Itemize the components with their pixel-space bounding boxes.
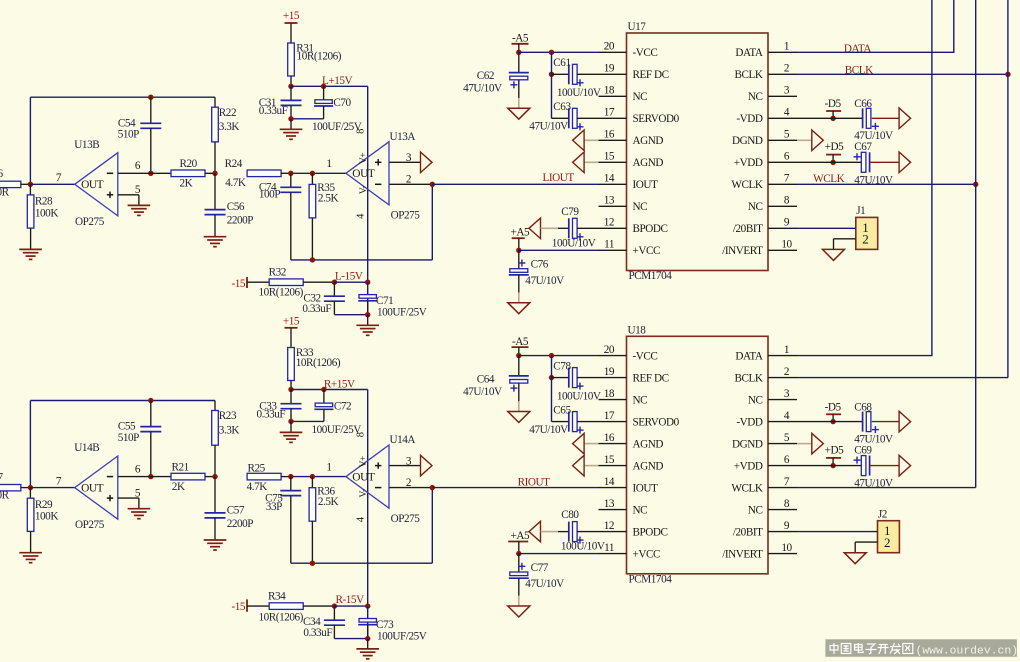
pin 19 (REF DC) of U17 (599, 73, 627, 75)
svg-text:3.3K: 3.3K (219, 425, 240, 437)
svg-text:BPODC: BPODC (633, 526, 668, 538)
junction V- rail bottom (365, 603, 370, 608)
junction -A5 node (516, 50, 521, 55)
pin 1 (DATA) of U17 (768, 51, 797, 53)
svg-text:16: 16 (604, 432, 615, 444)
resistor R34 (269, 603, 303, 610)
pin 1 (DATA) of U18 (768, 355, 797, 357)
svg-text:C68: C68 (854, 401, 872, 413)
label C77 plus (518, 565, 525, 567)
power bar +D5 (826, 457, 841, 459)
svg-text:15: 15 (604, 151, 615, 163)
wire node to U13A pin 1 (291, 172, 346, 174)
svg-text:+VDD: +VDD (734, 460, 763, 472)
AGND arrow U17 pin 15 stub (584, 161, 598, 163)
junction C55 tap (148, 398, 153, 403)
svg-text:C76: C76 (531, 259, 549, 271)
junction C75 tap (288, 474, 293, 479)
capacitor C33 (281, 403, 302, 405)
wire V- rail to ground node bottom (367, 606, 369, 639)
wire feedback top net 1 (30, 96, 215, 98)
op-amp U14B (75, 456, 118, 519)
resistor R31 (288, 43, 295, 76)
svg-text:19: 19 (604, 366, 615, 378)
svg-text:R-15V: R-15V (336, 594, 365, 606)
power bar -15 (bottom) (246, 599, 248, 611)
wire feedback left vertical 1 (29, 97, 31, 184)
svg-text:-D5: -D5 (825, 401, 842, 413)
svg-text:OP275: OP275 (75, 519, 105, 531)
wire WCLK U18 horizontal (797, 487, 976, 489)
wire C34 bottom (334, 638, 367, 640)
svg-text:0R: 0R (0, 186, 10, 198)
svg-text:2: 2 (784, 366, 789, 378)
svg-text:47U/10V: 47U/10V (525, 578, 564, 590)
AGND arrow at U18 pin 16 (573, 433, 585, 454)
pin 5 (DGND) of U18 (768, 443, 797, 445)
junction C34 tap (332, 603, 337, 608)
pin 14 (IOUT) of U18 (599, 487, 627, 489)
svg-text:7: 7 (784, 173, 790, 185)
svg-text:1: 1 (326, 158, 331, 170)
svg-text:WCLK: WCLK (731, 179, 763, 191)
wire +A5 to U17 pin 11 (519, 249, 599, 251)
capacitor C71 (359, 295, 376, 299)
svg-text:12: 12 (604, 520, 614, 532)
svg-text:C71: C71 (376, 295, 393, 307)
power arrow at C80 (529, 521, 541, 542)
capacitor C66 (862, 108, 864, 128)
label C61 plus (577, 82, 584, 84)
svg-text:-VCC: -VCC (633, 47, 658, 59)
junction R35 tap (310, 171, 315, 176)
ground below R28 (19, 248, 42, 250)
pin 6 (+VDD) of U17 (768, 161, 797, 163)
pin 3 (NC) of U18 (768, 399, 797, 401)
pin 7 (WCLK) of U17 (768, 183, 797, 185)
svg-text:17: 17 (604, 410, 615, 422)
svg-text:C61: C61 (553, 57, 570, 69)
svg-text:14: 14 (604, 173, 615, 185)
AGND arrow U18 pin 16 stub (584, 443, 598, 445)
svg-text:+A5: +A5 (510, 227, 529, 239)
lead C69 to arrow (870, 465, 899, 467)
power bar +15 (bottom) (285, 327, 298, 329)
svg-text:+VDD: +VDD (734, 157, 763, 169)
svg-text:R28: R28 (35, 196, 53, 208)
capacitor C74 (280, 186, 301, 188)
svg-text:-VDD: -VDD (736, 416, 763, 428)
pin 18 (NC) of U18 (599, 399, 627, 401)
ground triangle below J2 (844, 553, 866, 564)
junction +A5 node (516, 248, 521, 253)
svg-text:6: 6 (784, 454, 790, 466)
pin 16 (AGND) of U17 (599, 139, 627, 141)
pin 12 (BPODC) of U17 (599, 227, 627, 229)
junction C54 bottom node (148, 171, 153, 176)
wire R+15V rail (291, 389, 368, 391)
wire pin 4 to C68 (797, 421, 863, 423)
svg-text:0.33uF: 0.33uF (302, 303, 331, 315)
svg-text:R24: R24 (225, 158, 243, 170)
power bar -D5 (826, 110, 841, 112)
junction V- rail (365, 280, 370, 285)
wire C33/C72 bottom (291, 420, 324, 422)
junction C33 bottom node (288, 419, 293, 424)
ground below C71 (356, 324, 379, 326)
svg-text:AGND: AGND (633, 460, 664, 472)
junction ground node L-15V (365, 312, 370, 317)
svg-text:BCLK: BCLK (734, 69, 762, 81)
resistor R32 (269, 279, 303, 286)
svg-text:V-: V- (359, 186, 369, 195)
svg-text:100U/10V: 100U/10V (561, 541, 605, 553)
wire U14A pin 3 (389, 465, 420, 467)
svg-text:2.5K: 2.5K (318, 496, 339, 508)
svg-text:C65: C65 (553, 405, 571, 417)
wire -A5 to U17 pin 20 (519, 51, 599, 53)
svg-text:12: 12 (604, 217, 614, 229)
wire WCLK U17 to bus (797, 183, 976, 185)
svg-text:2200P: 2200P (227, 518, 254, 530)
svg-text:R+15V: R+15V (324, 378, 355, 390)
svg-text:R23: R23 (219, 410, 237, 422)
AGND arrow U18 pin 15 stub (584, 465, 598, 467)
svg-text:J2: J2 (878, 509, 887, 521)
svg-text:REF DC: REF DC (633, 69, 669, 81)
resistor R24 (247, 170, 281, 177)
IC U18 PCM1704 body (627, 336, 769, 574)
connector J1 body (856, 217, 878, 249)
DGND arrow at U18 pin 5 (812, 433, 824, 454)
svg-text:C67: C67 (854, 141, 872, 153)
svg-text:13: 13 (604, 195, 615, 207)
ground below C56 (204, 236, 227, 238)
svg-text:20: 20 (604, 41, 615, 53)
wire U14B pin 5 (118, 497, 139, 499)
svg-text:BCLK: BCLK (734, 372, 762, 384)
ground triangle below C62 (508, 108, 530, 119)
junction C61 tap (549, 72, 554, 77)
svg-text:47U/10V: 47U/10V (463, 386, 502, 398)
resistor R22 (212, 107, 219, 142)
svg-text:2.5K: 2.5K (318, 193, 339, 205)
svg-text:13: 13 (604, 498, 615, 510)
power bar -15 (top) (246, 277, 248, 288)
power arrow at C68 (899, 411, 911, 432)
wire U14A pin 2 (389, 487, 432, 489)
wire pin 9 to J1 pin 1 (797, 227, 856, 229)
capacitor C55 (140, 426, 161, 428)
svg-text:3: 3 (406, 152, 412, 164)
wire feedback top net 2 (30, 400, 215, 402)
power bar +A5 (508, 541, 528, 543)
label C66 plus (872, 125, 879, 127)
pin 15 (AGND) of U17 (599, 161, 627, 163)
svg-text:(www.ourdev.cn): (www.ourdev.cn) (916, 646, 1019, 658)
label C68 plus (872, 429, 879, 431)
svg-text:-15: -15 (232, 278, 246, 290)
wire C72 down (323, 409, 325, 421)
AGND arrow at U17 pin 16 (573, 130, 585, 151)
svg-text:18: 18 (604, 388, 615, 400)
svg-text:17: 17 (604, 107, 615, 119)
capacitor C76 (510, 269, 528, 273)
op-amp U14A (346, 445, 389, 508)
wire feedback rail 2 (291, 562, 433, 564)
wire U13B pin 6 to node (118, 172, 151, 174)
svg-text:C54: C54 (118, 117, 136, 129)
wire WCLK bus vertical (975, 0, 977, 488)
ground below R29 (19, 552, 42, 554)
svg-text:C55: C55 (118, 421, 136, 433)
pin 11 (+VCC) of U17 (599, 249, 627, 251)
svg-text:20: 20 (604, 344, 615, 356)
svg-text:V+: V+ (359, 153, 369, 164)
svg-text:V+: V+ (359, 456, 369, 467)
wire J2 pin 2 (855, 541, 877, 543)
ground below C31 (280, 128, 303, 130)
wire L-15V rail (334, 281, 367, 283)
pin 15 (AGND) of U18 (599, 465, 627, 467)
svg-text:-15: -15 (232, 601, 246, 613)
junction ground node R-15V (365, 636, 370, 641)
svg-text:-VCC: -VCC (633, 350, 658, 362)
pin 5 (DGND) of U17 (768, 139, 797, 141)
junction C55 bottom node (148, 474, 153, 479)
wire branch to C78/C65 (551, 356, 553, 422)
svg-text:0.33uF: 0.33uF (257, 408, 286, 420)
wire pin 9 to J2 pin 1 (797, 531, 878, 533)
svg-text:/20BIT: /20BIT (733, 526, 763, 538)
svg-text:10R(1206): 10R(1206) (297, 51, 342, 63)
svg-text:6: 6 (135, 160, 141, 172)
capacitor C72 (315, 403, 332, 407)
power bar +D5 (826, 154, 841, 156)
pin 13 (NC) of U17 (599, 205, 627, 207)
svg-text:0R: 0R (0, 490, 10, 502)
wire C31/C70 bottom (291, 118, 324, 120)
svg-text:10R(1206): 10R(1206) (296, 357, 341, 369)
resistor R33 (288, 348, 295, 381)
watermark CJK glyphs (830, 643, 838, 654)
wire op-amp U14B output (30, 487, 74, 489)
svg-text:10R(1206): 10R(1206) (259, 287, 304, 299)
svg-text:AGND: AGND (633, 157, 664, 169)
svg-text:U13B: U13B (74, 139, 99, 151)
junction +D5 node (830, 160, 835, 165)
svg-text:U14B: U14B (74, 442, 99, 454)
svg-text:100U/10V: 100U/10V (552, 237, 596, 249)
capacitor C80 (568, 522, 570, 542)
svg-text:7: 7 (56, 476, 62, 488)
capacitor C32 (324, 295, 345, 297)
pin 11 (+VCC) of U18 (599, 553, 627, 555)
svg-text:WCLK: WCLK (813, 173, 845, 185)
svg-text:2: 2 (884, 535, 890, 550)
capacitor C65 (568, 412, 570, 432)
svg-text:1: 1 (326, 462, 331, 474)
svg-text:4.7K: 4.7K (247, 481, 268, 493)
svg-text:5: 5 (784, 432, 790, 444)
pin 19 (REF DC) of U18 (599, 377, 627, 379)
svg-text:DGND: DGND (732, 135, 763, 147)
svg-text:4: 4 (784, 107, 790, 119)
capacitor C69 (861, 456, 866, 476)
AGND arrow U17 pin 16 stub (584, 139, 598, 141)
svg-text:C69: C69 (854, 444, 872, 456)
svg-text:+A5: +A5 (510, 530, 529, 542)
svg-text:4.7K: 4.7K (225, 177, 246, 189)
svg-text:100UF/25V: 100UF/25V (312, 121, 362, 133)
pin 10 (/INVERT) of U17 (768, 249, 797, 251)
wire L+15V rail (291, 85, 368, 87)
pin 17 (SERVOD0) of U18 (599, 421, 627, 423)
capacitor C63 (568, 108, 570, 128)
svg-text:2200P: 2200P (227, 215, 254, 227)
svg-text:47U/10V: 47U/10V (529, 121, 568, 133)
op-amp U13B input markers (107, 172, 113, 174)
resistor R27 (cut off at edge) (0, 485, 21, 491)
ground at U13B pin 5 (128, 204, 151, 206)
svg-text:3: 3 (784, 388, 790, 400)
junction -A5 node (516, 353, 521, 358)
junction R36 bottom (310, 561, 315, 566)
pin 18 (NC) of U17 (599, 95, 627, 97)
wire feedback left vertical 2 (29, 401, 31, 488)
capacitor C54 (140, 122, 161, 124)
ground triangle below J1 (823, 249, 845, 260)
label C67 plus (854, 156, 861, 158)
label C62 plus (510, 84, 517, 86)
svg-text:6: 6 (135, 463, 141, 475)
svg-text:/INVERT: /INVERT (722, 245, 763, 257)
svg-text:5: 5 (135, 184, 141, 196)
power bar -A5 (512, 346, 529, 348)
wire V+ line down through U14A (367, 390, 369, 607)
svg-text:15: 15 (604, 454, 615, 466)
lead C68 to arrow (872, 421, 899, 423)
stub arrow C80 (541, 531, 559, 533)
svg-text:11: 11 (604, 542, 614, 554)
svg-text:C63: C63 (553, 101, 571, 113)
stub to ground triangle C76 (518, 293, 520, 303)
wire -15 to R32 (247, 281, 269, 283)
svg-text:-D5: -D5 (825, 98, 842, 110)
ground below C57 (204, 539, 227, 541)
svg-text:U13A: U13A (390, 131, 416, 143)
svg-text:NC: NC (633, 91, 648, 103)
svg-text:100UF/25V: 100UF/25V (377, 631, 427, 643)
op-amp U13A (346, 142, 389, 205)
svg-text:14: 14 (604, 476, 615, 488)
junction C78 branch (549, 353, 554, 358)
resistor R26 (cut off at edge) (0, 181, 21, 187)
wire C70 down (323, 106, 325, 119)
svg-text:2K: 2K (172, 481, 185, 493)
svg-text:8: 8 (356, 432, 367, 437)
wire U14B pin 6 to node (118, 476, 151, 478)
svg-text:100K: 100K (35, 511, 58, 523)
DGND arrow at U17 pin 5 (812, 130, 824, 151)
junction R31/C31 node (288, 84, 293, 89)
junction R20/R22 node (212, 171, 217, 176)
wire +15 to R33 (290, 328, 292, 348)
junction U14A pin 2 node (430, 485, 435, 490)
wire -A5 to U18 pin 20 (519, 355, 599, 357)
capacitor C77 (510, 572, 528, 576)
svg-text:33P: 33P (266, 501, 282, 513)
svg-text:9: 9 (784, 520, 790, 532)
junction C74 tap (288, 171, 293, 176)
junction C54 tap (148, 95, 153, 100)
label C80 plus (577, 539, 584, 541)
label C69 plus (854, 459, 861, 461)
junction R36 tap (310, 474, 315, 479)
svg-text:DATA: DATA (735, 47, 763, 59)
junction R35 bottom (310, 257, 315, 262)
capacitor C79 (568, 218, 570, 238)
svg-text:100UF/25V: 100UF/25V (312, 424, 362, 436)
ground below C33 (280, 431, 303, 433)
svg-text:U18: U18 (628, 324, 647, 336)
capacitor C56 (205, 209, 226, 211)
resistor R25 (247, 473, 281, 480)
svg-text:3: 3 (784, 85, 790, 97)
junction -D5 node (830, 419, 835, 424)
capacitor C62 (509, 72, 529, 74)
capacitor C78 (568, 368, 570, 388)
svg-text:47U/10V: 47U/10V (525, 275, 564, 287)
capacitor C31 (281, 99, 302, 101)
svg-text:PCM1704: PCM1704 (629, 270, 673, 282)
svg-text:SERVOD0: SERVOD0 (633, 113, 680, 125)
junction -D5 node (830, 116, 835, 121)
wire V- rail to ground node (367, 282, 369, 315)
pin 8 (NC) of U17 (768, 205, 797, 207)
wire LIOUT (432, 183, 598, 185)
wire BCLK U18 horizontal (797, 377, 1008, 379)
ground triangle below C76 (508, 303, 530, 314)
svg-text:47U/10V: 47U/10V (463, 83, 502, 95)
svg-text:10: 10 (781, 542, 792, 554)
resistor R29 (27, 498, 34, 531)
wire op-amp U13B output (30, 183, 74, 185)
wire J1 pin 2 (834, 238, 856, 240)
svg-text:LIOUT: LIOUT (543, 172, 575, 184)
wire +15 to R31 (290, 23, 292, 43)
pin 14 (IOUT) of U17 (599, 183, 627, 185)
junction R33/C33 node (288, 387, 293, 392)
svg-text:2: 2 (406, 477, 411, 489)
svg-text:NC: NC (633, 394, 648, 406)
pin 3 (NC) of U17 (768, 95, 797, 97)
capacitor C34 (324, 619, 345, 621)
pin 9 (/20BIT) of U18 (768, 531, 797, 533)
svg-text:C73: C73 (376, 619, 394, 631)
svg-text:8: 8 (784, 498, 790, 510)
svg-text:7: 7 (784, 476, 790, 488)
op-amp U14A input markers (377, 462, 379, 468)
svg-text:2K: 2K (180, 178, 193, 190)
capacitor C67 (861, 152, 866, 172)
capacitor C57 (205, 512, 226, 514)
svg-text:DATA: DATA (735, 350, 763, 362)
svg-text:510P: 510P (118, 129, 139, 141)
op-amp U13B (75, 153, 118, 216)
pin 12 (BPODC) of U18 (599, 531, 627, 533)
pin 13 (NC) of U18 (599, 509, 627, 511)
